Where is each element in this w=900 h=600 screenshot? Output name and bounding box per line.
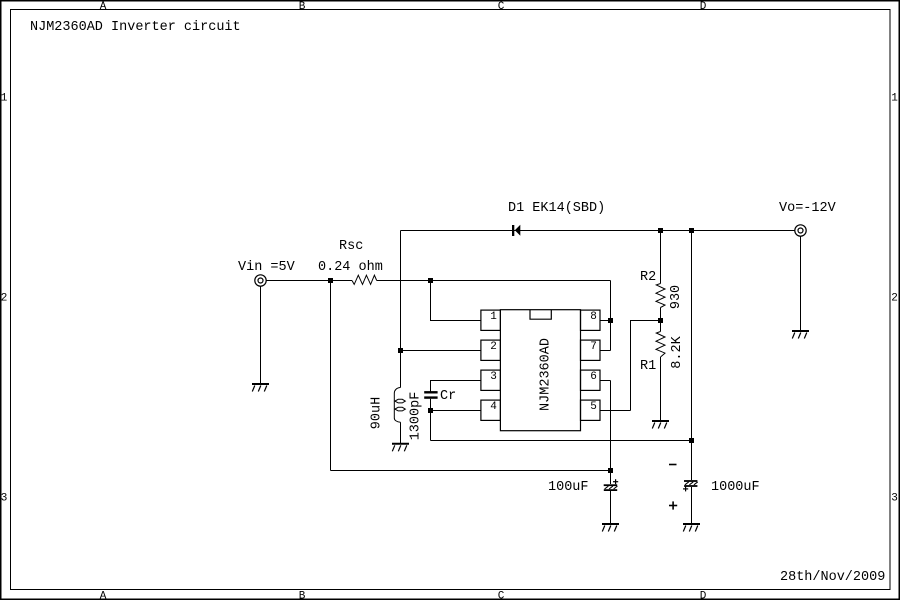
pin box 3 bbox=[481, 370, 501, 390]
row label 2 right bbox=[891, 293, 898, 305]
svg-text:B: B bbox=[299, 591, 306, 600]
junction pin8 node bbox=[608, 318, 613, 323]
capacitor Cr bbox=[424, 392, 437, 397]
svg-text:A: A bbox=[100, 591, 107, 600]
pin number 4 bbox=[490, 401, 497, 413]
svg-text:1300pF: 1300pF bbox=[409, 392, 424, 441]
column label C top bbox=[498, 1, 505, 13]
svg-text:D1 EK14(SBD): D1 EK14(SBD) bbox=[508, 201, 605, 216]
label R1 bbox=[640, 359, 656, 374]
svg-text:D: D bbox=[700, 591, 707, 600]
pin box 2 bbox=[481, 340, 501, 360]
label minus sign bbox=[669, 464, 677, 466]
column label C bottom bbox=[498, 591, 505, 600]
svg-text:NJM2360AD: NJM2360AD bbox=[539, 338, 554, 411]
resistor Rsc bbox=[352, 275, 377, 284]
date text bbox=[780, 570, 885, 585]
svg-text:D: D bbox=[700, 1, 707, 13]
wire pin7 stub bbox=[600, 350, 611, 352]
junction at output branch top bbox=[689, 228, 694, 233]
row label 3 left bbox=[1, 493, 8, 505]
column label D bottom bbox=[700, 591, 707, 600]
pin number 1 bbox=[490, 311, 497, 323]
column label A bottom bbox=[100, 591, 107, 600]
label 1300pF bbox=[409, 392, 424, 441]
label 8.2K bbox=[670, 335, 685, 368]
pin number 3 bbox=[490, 371, 497, 383]
pin box 1 bbox=[481, 310, 501, 330]
label 100uF bbox=[548, 480, 589, 495]
ground at 100uF bbox=[602, 524, 619, 532]
svg-text:C: C bbox=[498, 591, 505, 600]
pin box 7 bbox=[581, 340, 601, 360]
svg-text:3: 3 bbox=[490, 371, 497, 383]
wire 1000uF to ground bbox=[691, 487, 693, 523]
ground at 1000uF bbox=[683, 524, 700, 532]
junction pin2 node bbox=[398, 348, 403, 353]
svg-text:Rsc: Rsc bbox=[339, 239, 363, 254]
wire 100uF to ground bbox=[610, 491, 612, 523]
row label 3 right bbox=[891, 493, 898, 505]
wire pin1 riser bbox=[431, 281, 482, 321]
wire diode line to 1000uF branch bbox=[691, 231, 693, 481]
svg-text:R2: R2 bbox=[640, 270, 656, 285]
label Rsc bbox=[339, 239, 363, 254]
svg-text:A: A bbox=[100, 1, 107, 13]
label 930 bbox=[669, 285, 684, 309]
wire pin8 stub bbox=[600, 320, 611, 322]
label 0.24 ohm bbox=[318, 260, 383, 275]
row label 1 left bbox=[1, 93, 8, 105]
junction at Rsc output bbox=[428, 278, 433, 283]
diode D1 bbox=[512, 225, 520, 236]
column label B bottom bbox=[299, 591, 306, 600]
resistor R1 bbox=[656, 332, 665, 358]
svg-text:Vin =5V: Vin =5V bbox=[238, 260, 296, 275]
svg-text:2: 2 bbox=[891, 293, 898, 305]
wire diode top line bbox=[401, 230, 795, 232]
svg-text:NJM2360AD Inverter circuit: NJM2360AD Inverter circuit bbox=[30, 20, 241, 35]
connector J2 Vo bbox=[795, 225, 806, 236]
pin number 7 bbox=[590, 341, 597, 353]
wire pin8 riser from Rsc line bbox=[610, 281, 612, 351]
pin box 6 bbox=[581, 370, 601, 390]
svg-text:5: 5 bbox=[590, 401, 597, 413]
svg-text:6: 6 bbox=[590, 371, 597, 383]
wire inductor to ground bbox=[400, 422, 402, 443]
wire pin3 to Cr top bbox=[431, 381, 482, 392]
svg-text:100uF: 100uF bbox=[548, 480, 589, 495]
wire pin4 bbox=[431, 410, 482, 412]
wire Vin connector to ground bbox=[260, 286, 262, 383]
label Cr bbox=[440, 389, 456, 404]
column label D top bbox=[700, 1, 707, 13]
wire diode line to R2 bbox=[660, 231, 662, 284]
svg-text:1: 1 bbox=[1, 93, 8, 105]
pin box 8 bbox=[581, 310, 601, 330]
ground at Vo bbox=[792, 331, 809, 339]
wire R2 to feedback node bbox=[660, 308, 662, 332]
svg-text:Cr: Cr bbox=[440, 389, 456, 404]
label D1 EK14(SBD) bbox=[508, 201, 605, 216]
pin number 2 bbox=[490, 341, 497, 353]
junction feedback node bbox=[658, 318, 663, 323]
resistor R2 bbox=[656, 284, 665, 308]
svg-text:2: 2 bbox=[490, 341, 497, 353]
wire pin5 bbox=[600, 410, 631, 412]
wire Vin junction down to bottom rail bbox=[330, 281, 332, 471]
label plus sign bbox=[669, 501, 677, 509]
junction at Vin node bbox=[328, 278, 333, 283]
pin number 8 bbox=[590, 311, 597, 323]
wire Vo to ground bbox=[800, 236, 802, 330]
svg-text:R1: R1 bbox=[640, 359, 656, 374]
column label A top bbox=[100, 1, 107, 13]
junction pin4 node bbox=[428, 408, 433, 413]
wire pin4 node down to mid rail bbox=[430, 411, 432, 441]
wire Rsc to pin8 riser bbox=[377, 280, 611, 282]
ground at inductor bbox=[392, 444, 409, 452]
label NJM2360AD inside IC bbox=[539, 338, 554, 411]
inductor L1 90uH bbox=[394, 388, 405, 423]
pin box 4 bbox=[481, 400, 501, 420]
wire pin6 stub bbox=[600, 380, 611, 382]
label Vin =5V bbox=[238, 260, 296, 275]
svg-text:4: 4 bbox=[490, 401, 497, 413]
svg-text:2: 2 bbox=[1, 293, 8, 305]
svg-text:Vo=-12V: Vo=-12V bbox=[779, 201, 837, 216]
wire pin6 down to bottom rail and 100uF bbox=[610, 381, 612, 485]
pin number 6 bbox=[590, 371, 597, 383]
title text bbox=[30, 20, 241, 35]
ground at Vin bbox=[252, 384, 269, 392]
svg-text:8.2K: 8.2K bbox=[670, 335, 685, 368]
column label B top bbox=[299, 1, 306, 13]
label Vo=-12V bbox=[779, 201, 837, 216]
capacitor C1 100uF bbox=[604, 479, 619, 490]
pin number 5 bbox=[590, 401, 597, 413]
IC U1 NJM2360AD body bbox=[500, 310, 580, 431]
wire diode line vertical riser at x400 bbox=[400, 231, 402, 388]
svg-text:B: B bbox=[299, 1, 306, 13]
wire Vin to junction bbox=[267, 280, 331, 282]
label 90uH bbox=[370, 397, 385, 429]
label 1000uF bbox=[711, 480, 760, 495]
capacitor C2 1000uF bbox=[683, 481, 698, 491]
svg-text:1000uF: 1000uF bbox=[711, 480, 760, 495]
svg-text:1: 1 bbox=[490, 311, 497, 323]
wire bottom rail bbox=[331, 470, 611, 472]
wire Cr bottom to pin4 wire bbox=[430, 399, 432, 411]
row label 2 left bbox=[1, 293, 8, 305]
svg-text:3: 3 bbox=[1, 493, 8, 505]
svg-text:8: 8 bbox=[590, 311, 597, 323]
label R2 bbox=[640, 270, 656, 285]
svg-text:1: 1 bbox=[891, 93, 898, 105]
svg-text:0.24 ohm: 0.24 ohm bbox=[318, 260, 383, 275]
wire pin2 to x400 bbox=[401, 350, 482, 352]
wire R1 to ground bbox=[660, 357, 662, 420]
svg-text:930: 930 bbox=[669, 285, 684, 309]
junction at R2 top bbox=[658, 228, 663, 233]
junction bottom rail at 100uF bbox=[608, 468, 613, 473]
svg-text:C: C bbox=[498, 1, 505, 13]
svg-text:28th/Nov/2009: 28th/Nov/2009 bbox=[780, 570, 885, 585]
ground at R1 bbox=[652, 421, 669, 429]
pin box 5 bbox=[581, 400, 601, 420]
connector J1 Vin bbox=[255, 275, 266, 286]
wire pin5 riser to feedback node bbox=[631, 321, 661, 411]
wire junction to Rsc bbox=[331, 280, 353, 282]
svg-text:3: 3 bbox=[891, 493, 898, 505]
svg-text:90uH: 90uH bbox=[370, 397, 385, 429]
svg-text:7: 7 bbox=[590, 341, 597, 353]
junction mid rail at 1000uF bbox=[689, 438, 694, 443]
row label 1 right bbox=[891, 93, 898, 105]
wire mid rail to 1000uF bbox=[431, 440, 692, 442]
